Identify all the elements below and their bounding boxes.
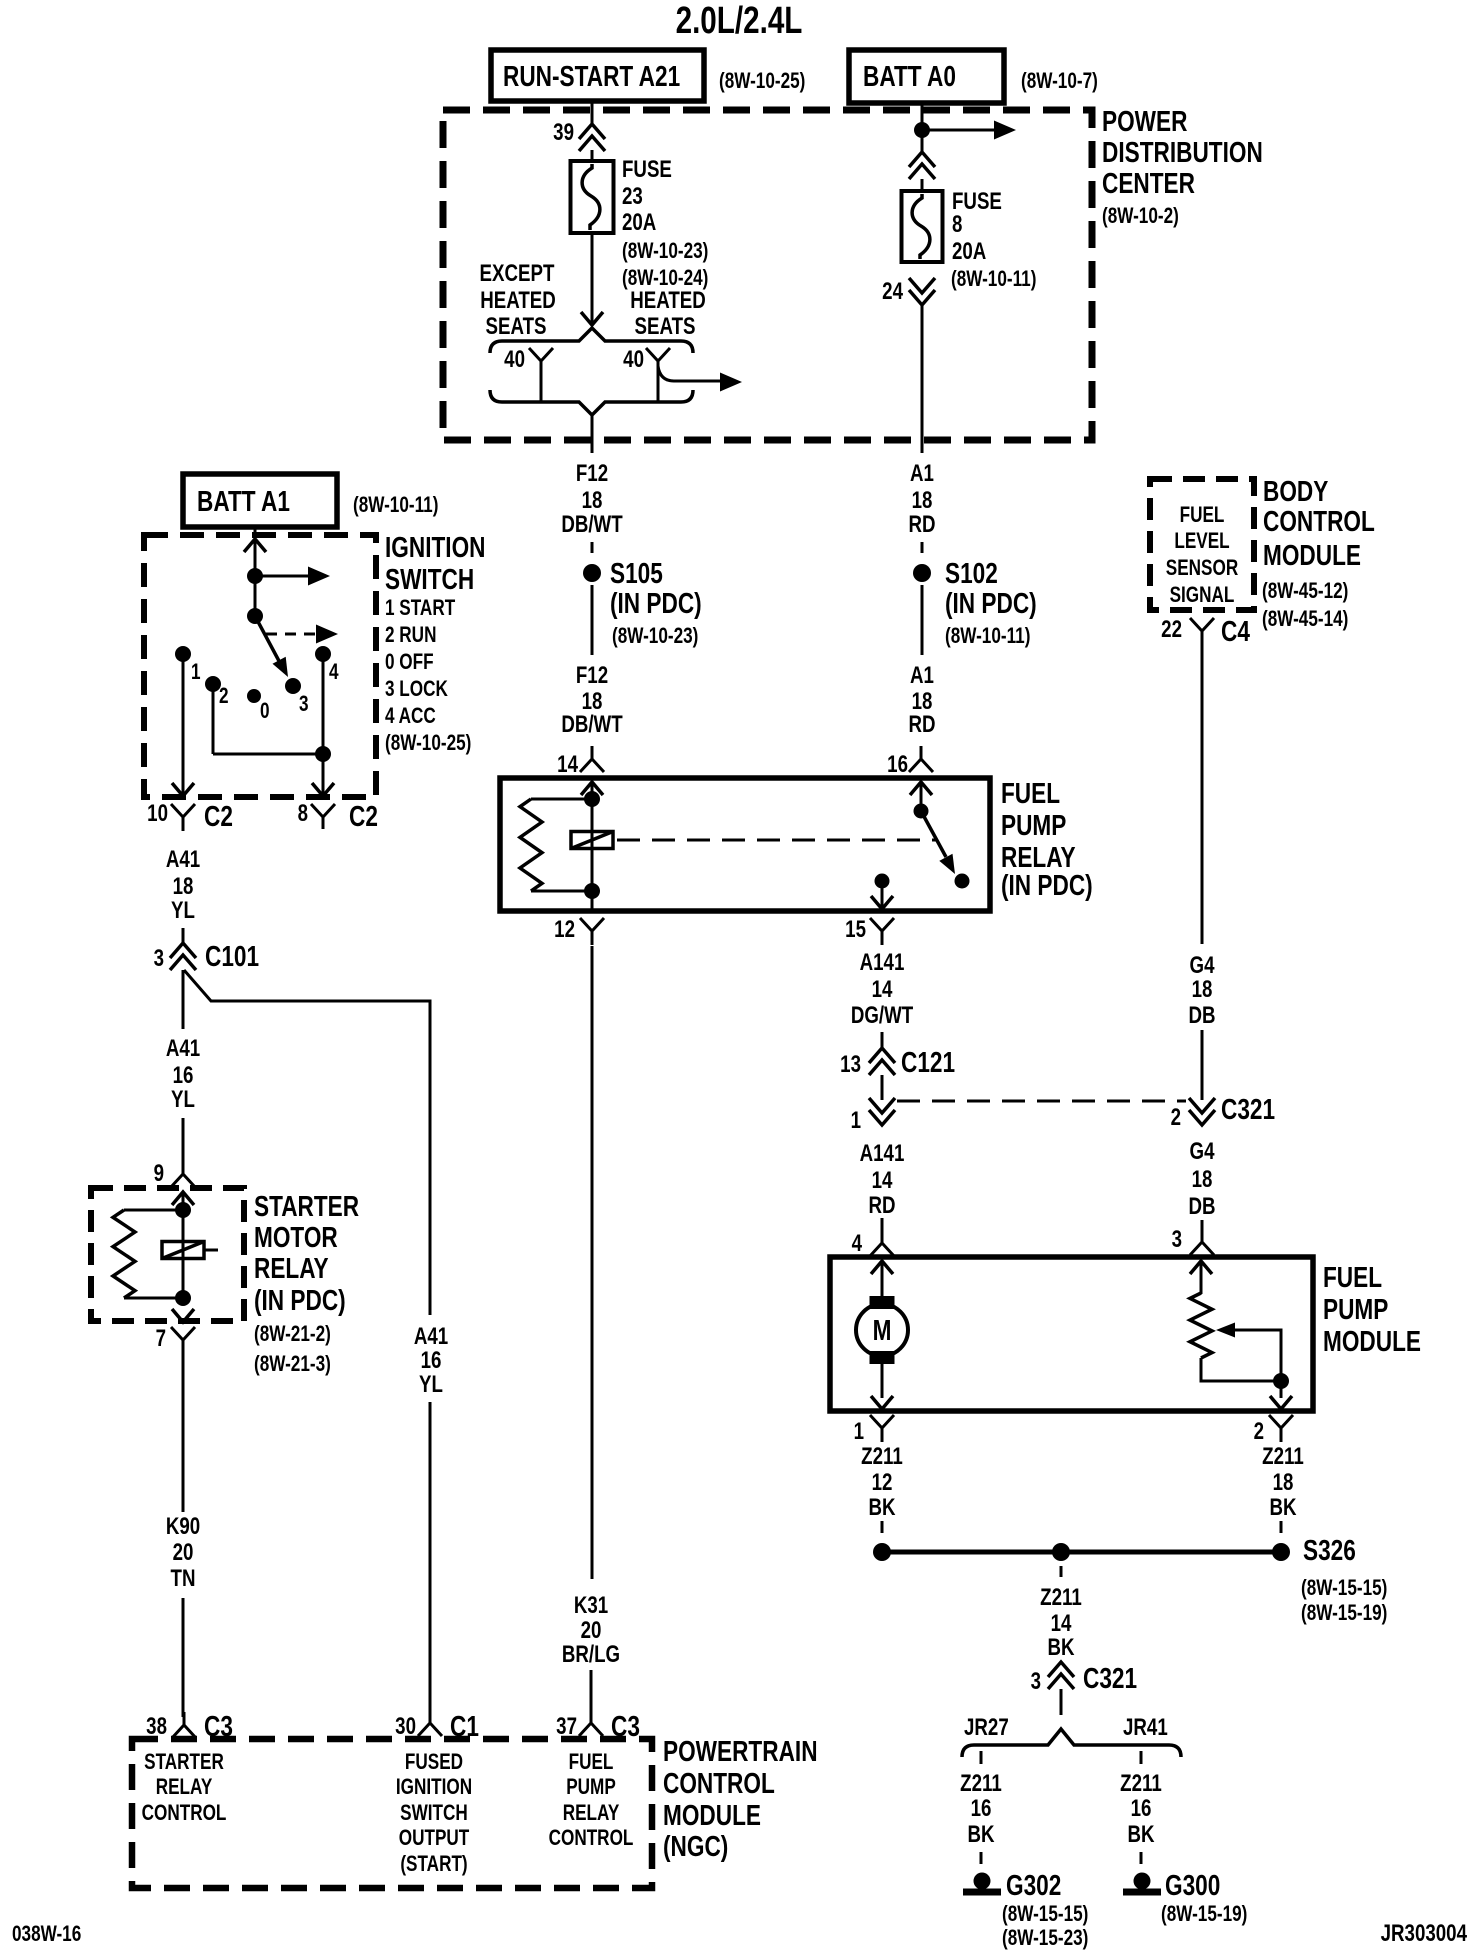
svg-text:BK: BK xyxy=(868,1494,895,1521)
wire to motor xyxy=(881,1261,884,1302)
svg-text:(START): (START) xyxy=(400,1852,467,1877)
wire S102 down xyxy=(921,585,924,655)
svg-text:BK: BK xyxy=(1047,1634,1074,1661)
svg-text:FUSED: FUSED xyxy=(405,1750,463,1775)
svg-text:(8W-15-15): (8W-15-15) xyxy=(1002,1902,1088,1927)
svg-text:SEATS: SEATS xyxy=(485,313,546,340)
svg-text:(8W-15-23): (8W-15-23) xyxy=(1002,1926,1088,1951)
svg-text:14: 14 xyxy=(1051,1610,1072,1637)
wire stub to splice left xyxy=(881,1521,884,1533)
wire junction to pin 8 xyxy=(322,754,325,796)
svg-text:FUEL: FUEL xyxy=(1180,503,1225,528)
svg-text:14: 14 xyxy=(872,1167,893,1194)
wire K90 to PCM pin 38 xyxy=(182,1598,185,1717)
wire to fuel pump pin 4 xyxy=(881,1218,884,1234)
splice S102 xyxy=(913,564,931,582)
svg-text:9: 9 xyxy=(154,1160,164,1187)
wire pin 12 to PCM pin 37 (K31) xyxy=(591,946,594,1579)
wire stub below splice xyxy=(1060,1566,1063,1577)
branch arrow heated seats xyxy=(658,366,722,381)
svg-text:8: 8 xyxy=(952,211,962,238)
wire between connector halves xyxy=(881,1075,884,1100)
svg-text:(8W-15-15): (8W-15-15) xyxy=(1301,1576,1387,1601)
svg-text:SIGNAL: SIGNAL xyxy=(1170,583,1235,608)
svg-text:A1: A1 xyxy=(910,460,934,487)
dashed connector line C121 to C321 xyxy=(897,1100,1186,1103)
linkage dashed line xyxy=(617,839,936,842)
power feed box RUN-START A21 xyxy=(491,50,704,101)
connector in PDC (chevrons) xyxy=(909,152,935,167)
svg-text:RD: RD xyxy=(908,711,935,738)
svg-text:(8W-10-23): (8W-10-23) xyxy=(622,239,708,264)
coil node top dot xyxy=(175,1202,191,1218)
stub to G302 xyxy=(980,1852,983,1864)
svg-text:YL: YL xyxy=(171,1086,195,1113)
svg-text:(8W-21-2): (8W-21-2) xyxy=(254,1322,331,1347)
resistor shunt starter relay xyxy=(124,1209,183,1212)
splice bus S326 xyxy=(882,1550,1281,1555)
fuel pump module box xyxy=(830,1257,1313,1411)
svg-text:F12: F12 xyxy=(576,460,608,487)
svg-text:DG/WT: DG/WT xyxy=(851,1002,913,1029)
wire 40 right down xyxy=(657,372,660,402)
svg-text:C121: C121 xyxy=(901,1045,955,1078)
stub JR41 xyxy=(1140,1751,1143,1764)
svg-text:24: 24 xyxy=(882,278,903,305)
wire coil vertical xyxy=(182,1192,185,1298)
wire to fuse 8 xyxy=(921,179,924,192)
svg-text:(NGC): (NGC) xyxy=(663,1829,728,1862)
svg-text:2 RUN: 2 RUN xyxy=(385,623,436,648)
svg-text:8: 8 xyxy=(298,800,308,827)
node dot BATT A0 feed xyxy=(914,122,930,138)
svg-text:(8W-15-19): (8W-15-19) xyxy=(1301,1601,1387,1626)
svg-text:FUEL: FUEL xyxy=(1001,776,1060,809)
svg-text:(8W-10-11): (8W-10-11) xyxy=(945,624,1030,649)
wire K31 to pin 37 xyxy=(590,1670,593,1714)
svg-text:JR41: JR41 xyxy=(1123,1714,1168,1741)
svg-text:Z211: Z211 xyxy=(861,1443,903,1470)
svg-text:3: 3 xyxy=(154,945,164,972)
wire to fuel pump pin 3 xyxy=(1201,1220,1204,1232)
svg-text:EXCEPT: EXCEPT xyxy=(480,260,555,287)
svg-text:POWER: POWER xyxy=(1102,104,1188,137)
svg-text:30: 30 xyxy=(395,1713,416,1740)
splice dot middle xyxy=(1052,1543,1070,1561)
contact 0 xyxy=(247,689,261,703)
wire to ground split xyxy=(1060,1689,1063,1715)
wire to sensor resistor xyxy=(1200,1261,1203,1294)
power distribution center dashed box xyxy=(443,110,1092,440)
svg-text:S102: S102 xyxy=(945,556,998,589)
svg-text:HEATED: HEATED xyxy=(630,287,706,314)
svg-text:(8W-10-2): (8W-10-2) xyxy=(1102,204,1179,229)
coil top dot xyxy=(584,791,600,807)
arrow out of relay coil xyxy=(172,1309,194,1322)
switch blade to position 3 xyxy=(255,616,279,661)
svg-text:C321: C321 xyxy=(1221,1092,1275,1125)
svg-text:PUMP: PUMP xyxy=(1323,1292,1388,1325)
svg-text:MOTOR: MOTOR xyxy=(254,1220,338,1253)
svg-text:(8W-10-11): (8W-10-11) xyxy=(353,493,438,518)
svg-text:(IN PDC): (IN PDC) xyxy=(610,586,702,619)
svg-text:(8W-10-7): (8W-10-7) xyxy=(1021,69,1098,94)
resistor shunt fuel pump relay xyxy=(531,798,592,801)
svg-text:1: 1 xyxy=(851,1107,861,1134)
svg-text:BR/LG: BR/LG xyxy=(562,1641,620,1668)
svg-text:FUEL: FUEL xyxy=(1323,1260,1382,1293)
wire common to pivot xyxy=(920,782,923,811)
svg-text:HEATED: HEATED xyxy=(480,287,556,314)
svg-text:CENTER: CENTER xyxy=(1102,166,1195,199)
svg-text:1 START: 1 START xyxy=(385,596,455,621)
svg-text:18: 18 xyxy=(1192,976,1213,1003)
svg-text:STARTER: STARTER xyxy=(144,1750,224,1775)
svg-text:TN: TN xyxy=(171,1565,196,1592)
svg-text:POWERTRAIN: POWERTRAIN xyxy=(663,1734,818,1767)
svg-text:3: 3 xyxy=(1031,1668,1041,1695)
svg-text:IGNITION: IGNITION xyxy=(385,530,486,563)
svg-text:SWITCH: SWITCH xyxy=(400,1801,468,1826)
svg-text:16: 16 xyxy=(173,1062,194,1089)
arrow into level sensor xyxy=(1190,1261,1212,1274)
svg-text:(IN PDC): (IN PDC) xyxy=(254,1283,346,1316)
ground G300 xyxy=(1134,1873,1151,1890)
wire connector 39 to fuse 23 xyxy=(591,150,594,162)
svg-text:C4: C4 xyxy=(1221,614,1250,647)
wire node to pin 2 xyxy=(1280,1381,1283,1398)
svg-text:CONTROL: CONTROL xyxy=(663,1766,775,1799)
stub JR27 xyxy=(980,1751,983,1764)
svg-text:DB: DB xyxy=(1188,1193,1215,1220)
svg-text:OUTPUT: OUTPUT xyxy=(399,1826,470,1851)
wire pin 24 down to PDC exit A1 xyxy=(921,305,924,453)
dashed travel arrow xyxy=(266,633,316,636)
svg-text:2: 2 xyxy=(1254,1418,1264,1445)
connector pin 39 xyxy=(579,124,605,139)
svg-text:Z211: Z211 xyxy=(1040,1584,1082,1611)
svg-text:A41: A41 xyxy=(166,1035,200,1062)
svg-text:(8W-10-25): (8W-10-25) xyxy=(385,731,471,756)
arrowhead up to BATT A1 xyxy=(244,539,266,552)
branch wire to fused ignition output xyxy=(184,970,430,1315)
svg-text:G4: G4 xyxy=(1190,952,1215,979)
sensor wiper arm xyxy=(1234,1330,1281,1381)
svg-text:7: 7 xyxy=(156,1325,166,1352)
power feed box BATT A1 xyxy=(183,474,337,527)
wire resistor bottom to node xyxy=(1201,1358,1281,1381)
splice S105 xyxy=(583,564,601,582)
svg-text:BK: BK xyxy=(1269,1494,1296,1521)
svg-text:0: 0 xyxy=(260,699,270,724)
junction dot contacts 2/4 xyxy=(315,746,331,762)
svg-text:14: 14 xyxy=(872,976,893,1003)
svg-text:20: 20 xyxy=(581,1617,602,1644)
svg-text:C101: C101 xyxy=(205,939,259,972)
svg-text:15: 15 xyxy=(845,916,866,943)
svg-text:F12: F12 xyxy=(576,662,608,689)
arrow into relay coil xyxy=(581,782,603,795)
svg-text:MODULE: MODULE xyxy=(1323,1324,1421,1357)
svg-text:IGNITION: IGNITION xyxy=(396,1775,472,1800)
fuel level sensor resistor xyxy=(1190,1293,1212,1358)
svg-text:18: 18 xyxy=(1192,1166,1213,1193)
svg-text:3 LOCK: 3 LOCK xyxy=(385,677,449,702)
svg-text:13: 13 xyxy=(840,1051,861,1078)
svg-text:4 ACC: 4 ACC xyxy=(385,704,436,729)
ground G302 xyxy=(974,1873,991,1890)
wire to starter relay pin 9 xyxy=(182,1118,185,1162)
svg-text:A141: A141 xyxy=(860,1140,905,1167)
svg-text:(8W-10-23): (8W-10-23) xyxy=(612,624,698,649)
wire to PDC exit F12 xyxy=(591,414,594,453)
svg-text:MODULE: MODULE xyxy=(663,1798,761,1831)
wire S105 down xyxy=(591,585,594,655)
wire contact 4 down xyxy=(322,654,325,754)
svg-text:0 OFF: 0 OFF xyxy=(385,650,434,675)
relay pivot dot xyxy=(914,804,929,819)
arrow feed to right xyxy=(926,129,1000,132)
connector 1 C121 lower half xyxy=(869,1098,895,1113)
coil node bottom dot xyxy=(175,1290,191,1306)
svg-text:BK: BK xyxy=(1127,1821,1154,1848)
svg-text:Z211: Z211 xyxy=(1262,1443,1304,1470)
relay contact dot xyxy=(955,874,970,889)
svg-text:(IN PDC): (IN PDC) xyxy=(945,586,1037,619)
svg-text:2.0L/2.4L: 2.0L/2.4L xyxy=(676,0,803,42)
contact 3 xyxy=(285,678,301,694)
svg-text:SWITCH: SWITCH xyxy=(385,562,474,595)
wire contact 1 to pin 10 xyxy=(182,654,185,796)
wire contact 2 to junction xyxy=(212,684,215,754)
wire stub to S102 xyxy=(921,542,924,553)
svg-text:(8W-45-14): (8W-45-14) xyxy=(1262,607,1348,632)
svg-text:FUSE: FUSE xyxy=(622,156,672,183)
svg-text:2: 2 xyxy=(219,684,229,709)
svg-text:BATT A0: BATT A0 xyxy=(863,59,956,92)
svg-text:10: 10 xyxy=(147,800,168,827)
svg-text:JR303004: JR303004 xyxy=(1381,1920,1467,1947)
contact 2 xyxy=(205,676,221,692)
wire fuse 23 down xyxy=(591,233,594,324)
wire to C101 xyxy=(182,928,185,945)
svg-text:18: 18 xyxy=(173,873,194,900)
svg-text:20A: 20A xyxy=(622,209,656,236)
svg-text:(8W-10-25): (8W-10-25) xyxy=(719,69,805,94)
ground split brace JR27/JR41 xyxy=(962,1729,1181,1757)
svg-text:16: 16 xyxy=(421,1347,442,1374)
svg-text:RELAY: RELAY xyxy=(156,1775,213,1800)
splice dot left xyxy=(873,1543,891,1561)
svg-text:SENSOR: SENSOR xyxy=(1166,556,1238,581)
svg-text:16: 16 xyxy=(971,1795,992,1822)
svg-text:DB/WT: DB/WT xyxy=(561,711,622,738)
svg-text:40: 40 xyxy=(623,346,644,373)
stub to G300 xyxy=(1140,1852,1143,1864)
wire BATT A0 down xyxy=(921,103,924,152)
svg-text:A1: A1 xyxy=(910,662,934,689)
svg-text:(8W-15-19): (8W-15-19) xyxy=(1161,1902,1247,1927)
svg-text:40: 40 xyxy=(504,346,525,373)
arrow switch feed right xyxy=(258,575,314,578)
connector 2 C321 xyxy=(1189,1098,1215,1113)
svg-text:YL: YL xyxy=(419,1371,443,1398)
fuse F23 xyxy=(571,161,614,233)
svg-text:K31: K31 xyxy=(574,1592,608,1619)
svg-text:14: 14 xyxy=(557,751,578,778)
wire pin 22 down G4 xyxy=(1201,645,1204,944)
svg-text:CONTROL: CONTROL xyxy=(549,1826,634,1851)
svg-text:A141: A141 xyxy=(860,949,905,976)
body control module dashed box xyxy=(1150,479,1254,610)
svg-text:4: 4 xyxy=(329,660,339,685)
wiper pivot dot xyxy=(247,608,263,624)
svg-text:18: 18 xyxy=(582,487,603,514)
fuel pump relay box xyxy=(500,778,990,911)
svg-text:STARTER: STARTER xyxy=(254,1189,359,1222)
svg-text:RD: RD xyxy=(868,1192,895,1219)
svg-text:(8W-45-12): (8W-45-12) xyxy=(1262,579,1348,604)
coil bottom dot xyxy=(584,883,600,899)
wire to C121 xyxy=(881,1032,884,1050)
svg-text:12: 12 xyxy=(872,1469,893,1496)
relay coil wire xyxy=(591,782,594,911)
wire branch to pin 30 xyxy=(429,1402,432,1714)
arrow into pump motor xyxy=(871,1261,893,1274)
power feed box BATT A0 xyxy=(849,50,1004,103)
svg-text:PUMP: PUMP xyxy=(566,1775,616,1800)
svg-text:16: 16 xyxy=(1131,1795,1152,1822)
svg-text:S326: S326 xyxy=(1303,1533,1356,1566)
wire motor to pin 1 xyxy=(881,1358,884,1398)
svg-text:16: 16 xyxy=(887,751,908,778)
wire to wiper pivot xyxy=(254,576,257,616)
ignition switch dashed box xyxy=(144,535,376,797)
svg-text:FUEL: FUEL xyxy=(569,1750,614,1775)
svg-text:3: 3 xyxy=(1172,1226,1182,1253)
svg-text:(8W-10-11): (8W-10-11) xyxy=(951,267,1036,292)
svg-text:C2: C2 xyxy=(349,799,378,832)
connector 3 C321 ground side xyxy=(1048,1662,1074,1677)
svg-text:DB/WT: DB/WT xyxy=(561,511,622,538)
svg-text:38: 38 xyxy=(146,1713,167,1740)
svg-text:DB: DB xyxy=(1188,1002,1215,1029)
wire RUN-START A21 to connector 39 xyxy=(591,101,594,126)
svg-text:G4: G4 xyxy=(1190,1138,1215,1165)
wire 40 left down xyxy=(540,372,543,402)
wire C101 down xyxy=(182,970,185,1029)
svg-text:18: 18 xyxy=(912,487,933,514)
node dot switch feed xyxy=(247,568,263,584)
svg-text:BK: BK xyxy=(967,1821,994,1848)
svg-text:2: 2 xyxy=(1171,1104,1181,1131)
relay output contact dot pin 15 xyxy=(875,874,890,889)
wire contact to pin 15 xyxy=(881,881,884,909)
svg-text:RELAY: RELAY xyxy=(563,1801,620,1826)
svg-text:20: 20 xyxy=(173,1539,194,1566)
svg-text:A41: A41 xyxy=(414,1323,448,1350)
svg-text:3: 3 xyxy=(299,692,309,717)
contact 4 xyxy=(315,646,331,662)
wire stub to S105 xyxy=(591,542,594,553)
wire BATT A1 into switch xyxy=(254,527,257,576)
svg-text:RD: RD xyxy=(908,511,935,538)
svg-text:Z211: Z211 xyxy=(960,1770,1002,1797)
svg-text:DISTRIBUTION: DISTRIBUTION xyxy=(1102,135,1263,168)
relay coil symbol xyxy=(162,1242,204,1259)
svg-text:20A: 20A xyxy=(952,238,986,265)
split brace except/heated seats xyxy=(490,328,693,353)
svg-text:BODY: BODY xyxy=(1263,474,1328,507)
svg-text:(IN PDC): (IN PDC) xyxy=(1001,868,1093,901)
svg-text:18: 18 xyxy=(1273,1469,1294,1496)
arrow into relay common xyxy=(910,782,932,795)
powertrain control module dashed box xyxy=(132,1739,652,1888)
svg-text:PUMP: PUMP xyxy=(1001,808,1066,841)
svg-text:Z211: Z211 xyxy=(1120,1770,1162,1797)
svg-text:C2: C2 xyxy=(204,799,233,832)
svg-text:4: 4 xyxy=(852,1230,862,1257)
arrow into relay K1 coil xyxy=(172,1192,194,1205)
splice dot right S326 xyxy=(1272,1543,1290,1561)
svg-text:CONTROL: CONTROL xyxy=(1263,504,1375,537)
svg-text:S105: S105 xyxy=(610,556,663,589)
starter motor relay dashed box xyxy=(91,1188,244,1321)
wire to C321 xyxy=(1201,1030,1204,1100)
svg-text:LEVEL: LEVEL xyxy=(1174,529,1229,554)
svg-text:YL: YL xyxy=(171,897,195,924)
arrow down into split xyxy=(581,312,603,325)
connector 3 C101 xyxy=(170,943,196,958)
wire stub to splice right xyxy=(1280,1521,1283,1533)
fuse F8 xyxy=(902,191,943,262)
svg-text:SEATS: SEATS xyxy=(634,313,695,340)
svg-text:12: 12 xyxy=(554,916,575,943)
svg-text:C321: C321 xyxy=(1083,1661,1137,1694)
svg-text:39: 39 xyxy=(553,119,574,146)
svg-text:37: 37 xyxy=(556,1713,577,1740)
svg-text:RELAY: RELAY xyxy=(254,1251,329,1284)
svg-text:MODULE: MODULE xyxy=(1263,538,1361,571)
svg-text:CONTROL: CONTROL xyxy=(142,1801,227,1826)
svg-text:038W-16: 038W-16 xyxy=(12,1922,81,1947)
relay blade xyxy=(921,811,946,857)
svg-text:22: 22 xyxy=(1161,616,1182,643)
svg-text:BATT A1: BATT A1 xyxy=(197,484,290,517)
svg-text:1: 1 xyxy=(191,660,201,685)
svg-text:A41: A41 xyxy=(166,846,200,873)
svg-text:G302: G302 xyxy=(1006,1868,1061,1901)
svg-text:JR27: JR27 xyxy=(964,1714,1009,1741)
svg-text:M: M xyxy=(873,1313,892,1346)
svg-text:1: 1 xyxy=(854,1418,864,1445)
fuel pump relay coil symbol xyxy=(571,832,613,849)
svg-text:(8W-21-3): (8W-21-3) xyxy=(254,1352,331,1377)
svg-text:G300: G300 xyxy=(1165,1868,1220,1901)
gather brace xyxy=(490,390,693,415)
svg-text:RUN-START A21: RUN-START A21 xyxy=(503,59,680,92)
wire pin 7 down xyxy=(182,1353,185,1512)
svg-text:K90: K90 xyxy=(166,1513,200,1540)
sensor node dot xyxy=(1273,1373,1289,1389)
connector 13 C121 xyxy=(869,1048,895,1063)
svg-text:23: 23 xyxy=(622,183,643,210)
fuel pump motor M1 xyxy=(870,1296,895,1309)
contact 1 xyxy=(175,646,191,662)
